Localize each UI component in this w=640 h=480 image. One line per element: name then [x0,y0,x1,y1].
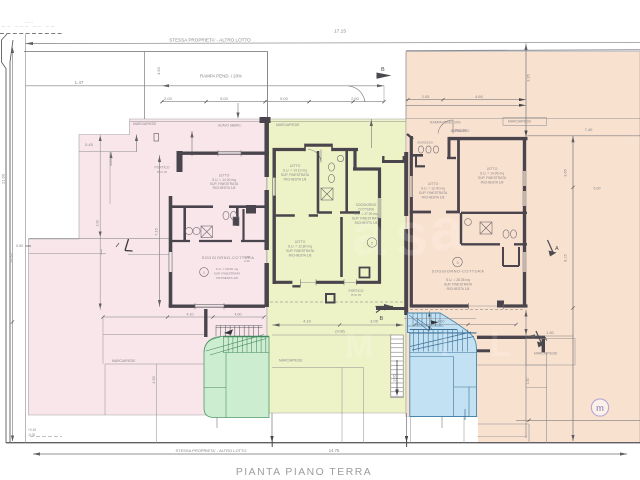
svg-text:RAMPA PEND. 20%: RAMPA PEND. 20% [430,121,461,125]
svg-text:~ — ~: ~ — ~ [25,21,33,25]
svg-text:SCAVO SBANC.: SCAVO SBANC. [218,124,242,128]
unit3 interior wall x458.5 [457,140,460,211]
unit2 top wall [273,145,359,149]
svg-text:5.00: 5.00 [220,96,229,101]
unit3 bottom dim row y324.5 [415,324,516,326]
top dashed boundary [0,33,63,35]
svg-text:SOGGIORNO-COTTURA: SOGGIORNO-COTTURA [432,269,485,274]
svg-text:M: M [345,328,373,366]
svg-text:21.60: 21.60 [1,173,6,184]
party wall lot2-lot3 [404,152,408,315]
unit3 room texts [419,167,507,200]
unit1 room texts letto [210,174,239,191]
svg-text:RICHIESTA 1/8: RICHIESTA 1/8 [289,254,312,258]
unit3 bottom window [469,305,504,307]
vertical lot line x25.5 [25,34,27,443]
svg-text:INGRESSO: INGRESSO [417,141,434,145]
svg-text:RICHIESTA 1/8: RICHIESTA 1/8 [284,178,307,182]
svg-text:2.60: 2.60 [351,96,360,101]
section marker A right [548,240,560,257]
svg-text:RICHIESTA 1/8: RICHIESTA 1/8 [216,276,238,280]
svg-text:3.05: 3.05 [370,319,379,324]
zone lot1 pink yard [29,119,268,415]
svg-text:0.45: 0.45 [85,142,94,147]
svg-text:L: L [490,326,511,364]
unit2 top-right terrace wall [382,160,406,163]
vertical dim line x12.5 [12,49,14,441]
svg-text:SUP. FINESTRATA: SUP. FINESTRATA [444,283,473,287]
svg-text:MARCIAPIEDE: MARCIAPIEDE [279,359,303,363]
gate arc lot3 [438,120,453,134]
svg-text:H=2.70: H=2.70 [351,293,361,297]
svg-text:STESSA PROPRIETA' - ALTRO LOTT: STESSA PROPRIETA' - ALTRO LOTTO [175,448,246,453]
watermark circle logo [591,399,608,416]
zone lot3 orange yard [406,52,640,444]
unit3 small room walls [503,247,519,266]
dim arrow x136.5 [136,135,138,153]
bottom site boundary line [6,442,640,444]
svg-text:8.15: 8.15 [564,254,568,261]
unit1 interior wall x237.3 [236,208,239,226]
svg-text:LETTO: LETTO [428,182,439,186]
unit2 entry door arc [308,150,321,163]
svg-text:LETTO: LETTO [290,164,301,168]
zone lot2 green yard [267,119,406,413]
unit1 top wall [177,151,270,154]
svg-text:+0.15: +0.15 [28,428,36,432]
svg-text:SUP. FINESTRATA: SUP. FINESTRATA [214,272,241,276]
svg-text:RICHIESTA 1/8: RICHIESTA 1/8 [213,186,236,190]
svg-text:S.U. = 14.10 mq: S.U. = 14.10 mq [283,169,307,173]
unit1 stair side wall [204,309,207,337]
orange zone top border [406,50,640,51]
svg-text:ANTIBAGNO: ANTIBAGNO [451,129,470,133]
svg-text:SUP. FINESTRATA: SUP. FINESTRATA [281,173,310,177]
svg-text:A: A [555,246,559,252]
svg-text:S.U. = 12.80 mq: S.U. = 12.80 mq [288,245,312,249]
unit2 shaft box [360,268,370,278]
svg-text:H=2.70: H=2.70 [157,170,167,174]
vertical dim x406.5 bottom [406,413,408,442]
svg-text:3.95: 3.95 [527,74,531,81]
ramp left edge x144.5 [144,52,146,119]
svg-text:s: s [395,201,428,268]
mint stair treads [204,337,269,418]
svg-text:a: a [352,201,386,268]
svg-text:RICHIESTA 1/8: RICHIESTA 1/8 [481,181,504,185]
sidewalk edge line y121.5 [130,121,406,123]
unit1 left wall [169,196,173,307]
svg-text:STESSA PROPRIETA' - ALTRO LOT: STESSA PROPRIETA' - ALTRO LOTTO [169,37,251,42]
party wall lot1-lot2 [264,117,269,307]
svg-text:I: I [440,326,449,364]
unit2 step wall y169 [353,167,381,170]
svg-text:17.15: 17.15 [334,29,346,35]
svg-text:S.U. = 28.35 mq: S.U. = 28.35 mq [446,278,470,282]
svg-text:5.00: 5.00 [594,187,601,191]
zone mint stair lot1 [204,337,269,418]
unit1 interior wall y240.5 [172,240,265,242]
lot3 vertical dim x520.5 [525,44,527,138]
faint watermark [352,196,464,268]
unit2 bath fixtures [321,155,344,200]
unit3 bath fixtures [465,219,517,239]
unit2 bottom windows [301,281,357,283]
blue stair treads [410,330,477,417]
unit1 porch pilaster [177,151,183,172]
unit3 right windows [523,171,525,272]
ramp lower dim y101.7 [162,101,384,103]
svg-text:3.05: 3.05 [393,375,397,382]
blue stair break line [410,332,474,350]
white area under blue stairs [404,417,478,443]
svg-text:B: B [381,67,385,73]
blue upper flight treads [408,313,444,331]
svg-text:3.65: 3.65 [564,169,568,176]
blue landing tick [464,409,466,420]
svg-text:MARCIAPIEDE: MARCIAPIEDE [112,359,136,363]
unit3 bath wall y244 [461,243,527,245]
lot3 top dim row y99.6 [406,99,526,101]
svg-text:LETTO: LETTO [487,167,498,171]
svg-text:A: A [544,337,548,343]
unit2 interior wall y215.5 [274,214,318,217]
svg-text:4.10: 4.10 [303,319,312,324]
svg-text:a: a [430,196,464,263]
bottom right dim y420 [516,419,640,421]
green top dim tick [370,119,372,148]
bottom right lines [478,353,547,444]
unit3 top-left bath fixtures [418,146,438,153]
section marker B bottom [376,304,394,322]
svg-text:LETTO: LETTO [219,174,230,178]
porch gate symbol [154,134,159,142]
unit2 left wall [273,148,276,284]
unit1 bottom wall [169,305,265,308]
unit2 bottom wall [273,281,382,284]
svg-text:2.05: 2.05 [422,94,431,99]
bottom dim line y454 [33,453,627,455]
svg-text:4.50: 4.50 [152,376,156,383]
stair direction arrow mint [224,329,233,335]
mint stair break line [206,335,266,356]
svg-text:1.80: 1.80 [546,331,553,335]
svg-text:4.60: 4.60 [475,94,484,99]
svg-text:4.10: 4.10 [187,313,194,317]
unit3 right wall [523,139,526,306]
unit2 right wall upper stub [353,148,356,169]
svg-text:3.50: 3.50 [156,66,161,75]
vertical dim line x159.5 pink [159,155,161,307]
svg-text:7.40: 7.40 [585,127,594,132]
unit2 portico side wall [376,307,406,310]
unit2 left wall window [273,178,275,196]
svg-text:4.60: 4.60 [438,320,445,324]
top dim line y43.5 [26,42,640,43]
svg-text:S.U. = 12.40 mq: S.U. = 12.40 mq [421,187,445,191]
site boundary left double line [2,34,14,443]
marciapiede box lot3 [503,118,547,126]
dim y336 lot3 [528,335,574,337]
svg-text:MARCIAPIEDE: MARCIAPIEDE [133,122,157,126]
section marker A lower [536,331,548,348]
blue stair direction arrow [431,320,439,324]
dashed overhang lot3 [410,309,524,311]
svg-text:LETTO: LETTO [295,240,306,244]
svg-text:MARCIAPIEDE: MARCIAPIEDE [276,123,300,127]
svg-text:2.90: 2.90 [96,220,100,227]
svg-text:MARCIAPIEDE: MARCIAPIEDE [534,352,558,356]
svg-text:S.U. = 28.60 mq: S.U. = 28.60 mq [216,267,239,271]
level marker symbol [125,239,133,251]
lot line y51.6 and x267.5 [24,52,268,119]
svg-text:4.60: 4.60 [235,313,242,317]
unit2 room texts [281,164,381,258]
lot3 division line x526 [525,310,527,439]
dim line across blue top [404,318,476,320]
green sidewalk lines [272,334,392,336]
ramp dim line y85.8 [26,85,385,87]
lot3 sidewalk line y118.5 [406,118,640,120]
svg-text:SUP. FINESTRATA: SUP. FINESTRATA [286,249,315,253]
lines below blue [411,417,465,443]
svg-text:RICHIESTA 1/8: RICHIESTA 1/8 [447,287,470,291]
unit1 top wall window [218,152,241,154]
tick below mint [216,418,218,429]
walkway arrow [396,360,398,393]
unit3 interior wall y212 [410,211,460,214]
unit1 bath fixtures [185,211,239,237]
pink left strip lines [29,237,171,239]
svg-text:1.50: 1.50 [526,378,530,385]
pink sidewalk bottom lines [103,334,204,415]
unit2 portico column [326,294,335,303]
svg-text:7.15: 7.15 [154,227,159,236]
green dim row y325 [272,324,404,326]
unit2 interior wall x337.8 [340,217,343,277]
unit3 left window [410,176,412,197]
dashed overhang line green y302 [270,301,406,303]
svg-text:B: B [380,316,384,322]
svg-text:SOGGIORNO-COTTURA: SOGGIORNO-COTTURA [202,255,255,260]
dim arrow x192 up to sidewalk [191,131,193,156]
lot3 long vertical dim x575.5 [572,136,574,441]
svg-text:2.00: 2.00 [164,96,173,101]
vertical line x156.5 [156,364,158,443]
ramp curve [348,86,365,102]
svg-text:5.00: 5.00 [280,96,289,101]
window jamb ticks [218,150,241,156]
unit3 entry walls top-left [407,134,413,139]
svg-text:1.47: 1.47 [75,80,84,85]
unit3 top wall [449,137,528,140]
svg-text:SUP. FINESTRATA: SUP. FINESTRATA [419,191,448,195]
svg-text:12.35: 12.35 [9,253,13,263]
unit1 left wall window [169,252,172,272]
unit3 portico wall [477,336,545,339]
svg-text:PIANTA PIANO TERRA: PIANTA PIANO TERRA [236,467,372,478]
unit1 interior wall y206.7 [172,205,265,208]
svg-text:S.U. = 14.95 mq: S.U. = 14.95 mq [480,172,504,176]
unit2 bath walls [317,151,320,214]
unit2 right wall window [378,198,380,218]
unit1 bottom window [195,305,224,307]
lot3 left boundary upper [405,52,407,120]
dim x430 below unit3 [428,311,430,331]
svg-text:SUP. FINESTRATA: SUP. FINESTRATA [478,176,507,180]
unit2 right wall [378,168,381,284]
unit1 interior wall x184.7 [183,208,186,240]
marciapiede box lot3 bottom [526,338,575,365]
walkway hatched strip [391,335,403,398]
dim row pink y317 [103,316,264,318]
zone blue stair lot3 [408,313,477,417]
tick below blue [441,417,443,428]
svg-text:0.50: 0.50 [16,244,23,248]
unit3 bottom wall [410,304,528,307]
svg-text:RAMPA PEND. i 20%: RAMPA PEND. i 20% [200,74,242,79]
unit3 bath wall y213 right [461,212,527,214]
unit3 left wall [410,136,413,307]
svg-text:MARCIAPIEDE: MARCIAPIEDE [508,120,532,124]
section marker B top [377,67,392,79]
vertical dim x272 bottom [271,413,273,442]
svg-text:m: m [596,403,604,413]
svg-text:(9.08): (9.08) [335,330,344,334]
mint stair upper flight (pink zone) [216,326,263,337]
svg-text:14.75: 14.75 [329,448,340,453]
